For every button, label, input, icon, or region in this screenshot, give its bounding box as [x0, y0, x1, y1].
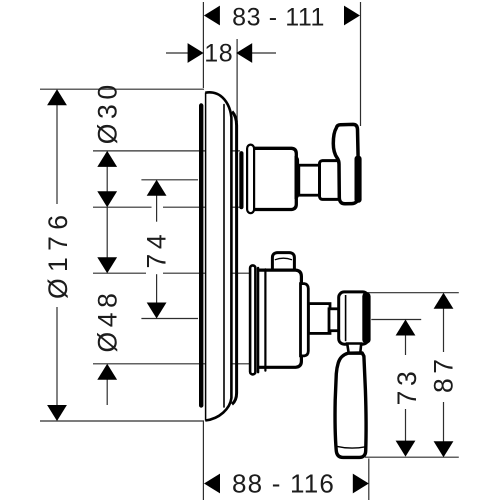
svg-text:18: 18 — [204, 40, 233, 68]
svg-text:74: 74 — [142, 230, 172, 269]
svg-text:73: 73 — [392, 367, 422, 406]
svg-text:87: 87 — [429, 354, 459, 393]
svg-text:83 - 111: 83 - 111 — [232, 4, 325, 32]
svg-text:88 - 116: 88 - 116 — [232, 469, 335, 499]
svg-text:Ø30: Ø30 — [93, 80, 123, 144]
svg-text:Ø48: Ø48 — [93, 289, 123, 353]
svg-text:Ø176: Ø176 — [43, 209, 73, 299]
